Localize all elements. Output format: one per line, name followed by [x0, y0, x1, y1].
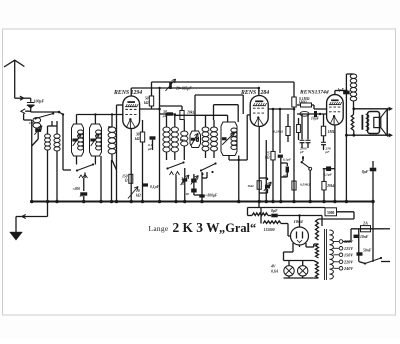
svg-text:0,1MΩ: 0,1MΩ: [299, 97, 310, 101]
svg-text:≈300: ≈300: [73, 187, 81, 191]
svg-text:kΩ: kΩ: [136, 194, 141, 198]
svg-text:0,1µF: 0,1µF: [324, 173, 333, 177]
svg-text:10nF: 10nF: [360, 235, 369, 239]
svg-text:125V: 125V: [344, 246, 354, 251]
svg-text:1064: 1064: [294, 219, 304, 224]
svg-text:„Gral“: „Gral“: [219, 221, 256, 235]
svg-text:kΩ: kΩ: [135, 137, 140, 141]
svg-text:1kΩ: 1kΩ: [247, 184, 254, 188]
svg-text:pF: pF: [325, 150, 331, 154]
svg-text:100pF: 100pF: [34, 98, 45, 103]
svg-text:RENS 1284: RENS 1284: [240, 90, 269, 96]
svg-text:RENS1374d: RENS1374d: [299, 89, 329, 95]
svg-text:10µF: 10µF: [311, 117, 320, 121]
svg-text:2 K 3 W: 2 K 3 W: [173, 220, 221, 235]
svg-text:4V: 4V: [270, 265, 276, 269]
svg-text:8µF: 8µF: [271, 209, 278, 213]
svg-text:pF: pF: [299, 150, 305, 154]
svg-text:2A: 2A: [362, 221, 368, 226]
svg-text:Lange: Lange: [149, 224, 169, 233]
svg-text:≈300µF: ≈300µF: [206, 194, 218, 198]
svg-text:8µF: 8µF: [362, 170, 369, 174]
svg-text:RENS 1294: RENS 1294: [113, 90, 142, 96]
svg-text:50nF: 50nF: [363, 249, 372, 253]
svg-text:100: 100: [184, 192, 189, 196]
svg-text:Ω: Ω: [181, 182, 184, 186]
svg-text:kΩ: kΩ: [144, 101, 149, 105]
svg-text:20kΩ: 20kΩ: [326, 184, 336, 188]
svg-text:600: 600: [180, 138, 185, 142]
svg-text:220V: 220V: [343, 259, 354, 264]
svg-text:0,6A: 0,6A: [271, 270, 279, 274]
svg-text:115000: 115000: [264, 228, 275, 232]
svg-text:0,1µF: 0,1µF: [150, 185, 160, 189]
svg-text:1MΩ: 1MΩ: [328, 130, 336, 134]
svg-text:150V: 150V: [344, 252, 354, 257]
svg-text:10: 10: [136, 189, 140, 193]
svg-text:0,5MΩ: 0,5MΩ: [300, 183, 310, 187]
svg-text:0,2MΩ: 0,2MΩ: [273, 130, 283, 134]
svg-text:20–665pF: 20–665pF: [175, 87, 192, 91]
svg-text:100: 100: [29, 121, 34, 125]
svg-text:5000: 5000: [327, 211, 334, 215]
svg-text:240V: 240V: [343, 266, 354, 271]
svg-text:Ω: Ω: [125, 179, 128, 183]
svg-text:0,1µF: 0,1µF: [283, 158, 292, 162]
svg-text:7: 7: [181, 177, 183, 181]
svg-text:20kΩ: 20kΩ: [186, 111, 196, 115]
